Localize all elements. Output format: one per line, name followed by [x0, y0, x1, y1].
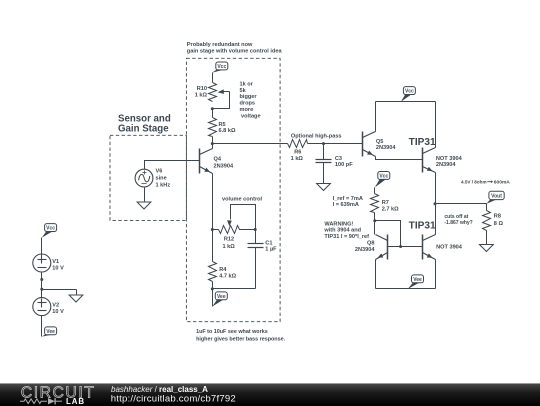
power net label Vee (bottom rail)	[408, 281, 420, 289]
svg-text:8 Ω: 8 Ω	[494, 221, 504, 227]
junction dot R10 bottom	[211, 107, 214, 110]
svg-text:Vcc: Vcc	[217, 64, 226, 70]
svg-text:1 kΩ: 1 kΩ	[291, 156, 304, 162]
node junction to ground	[40, 288, 43, 291]
svg-text:100 pF: 100 pF	[335, 162, 353, 168]
output junction dot	[434, 202, 437, 205]
wire Q4 emitter down	[212, 174, 214, 230]
node dot	[40, 278, 43, 281]
svg-text:1 kΩ: 1 kΩ	[222, 244, 235, 250]
svg-text:6.8 kΩ: 6.8 kΩ	[219, 128, 236, 134]
svg-text:Q8: Q8	[367, 241, 374, 247]
wire Vcc to R7	[374, 188, 376, 194]
svg-text:1k or: 1k or	[240, 81, 254, 87]
svg-text:-1.867 why?: -1.867 why?	[444, 220, 472, 226]
bottom rail	[376, 288, 436, 290]
svg-text:Gain Stage: Gain Stage	[118, 123, 169, 134]
svg-text:Vout: Vout	[491, 194, 502, 200]
transistor Q8 2N3904 (mirrored)	[387, 235, 389, 260]
svg-text:C1: C1	[265, 240, 272, 246]
power net label Vcc (R10)	[212, 68, 224, 73]
svg-text:Vee: Vee	[46, 329, 55, 335]
svg-text:1 µF: 1 µF	[265, 247, 277, 253]
svg-text:bigger: bigger	[240, 94, 258, 100]
svg-text:Vee: Vee	[413, 277, 422, 283]
svg-text:2N3904: 2N3904	[436, 162, 456, 168]
junction dot base rail	[399, 245, 402, 248]
annotation box: gain stage with volume control	[186, 58, 280, 321]
junction dot mirror ref	[373, 219, 376, 222]
svg-text:gain stage with volume control: gain stage with volume control idea	[187, 48, 283, 54]
transistor TIP31 (lower)	[422, 235, 424, 260]
svg-text:Q4: Q4	[214, 157, 222, 163]
resistor R4	[209, 262, 217, 282]
power net label Vee (R4)	[212, 298, 223, 307]
wire TIP31 emitter down	[435, 260, 437, 289]
svg-text:voltage: voltage	[241, 113, 261, 119]
svg-text:I = 639mA: I = 639mA	[333, 202, 359, 208]
svg-text:2.7 kΩ: 2.7 kΩ	[382, 206, 399, 212]
svg-text:R4: R4	[219, 267, 227, 273]
diode-connect loop	[375, 221, 401, 247]
svg-text:R6: R6	[294, 149, 301, 155]
resistor R6	[288, 140, 308, 148]
svg-text:TIP31 I = 90*I_ref: TIP31 I = 90*I_ref	[324, 234, 369, 240]
wire V6 top to Q4 base	[145, 161, 200, 170]
wire R10 to R5	[212, 109, 214, 118]
junction node Q4 collector	[211, 142, 214, 145]
svg-text:1 kHz: 1 kHz	[156, 182, 171, 188]
source V6 sine	[135, 169, 153, 187]
svg-text:2N3904: 2N3904	[214, 164, 234, 170]
svg-text:NOT 3904: NOT 3904	[436, 244, 463, 250]
svg-text:C3: C3	[335, 156, 342, 162]
wire R6 to Q5 base	[308, 143, 363, 145]
wire V1 to node	[41, 273, 43, 298]
ground under V6	[144, 188, 146, 203]
svg-text:TIP31: TIP31	[409, 137, 436, 148]
capacitor C3	[323, 144, 325, 160]
svg-text:sine: sine	[156, 175, 167, 181]
wire R5 to collector node	[212, 137, 214, 149]
svg-text:1uF to 10uF see what works: 1uF to 10uF see what works	[196, 329, 268, 335]
svg-text:Optional high-pass: Optional high-pass	[291, 133, 342, 139]
svg-text:Vcc: Vcc	[46, 226, 55, 232]
svg-text:4.5V / 8ohm: 4.5V / 8ohm	[461, 179, 487, 184]
power net label Vcc (left rail)	[42, 230, 53, 238]
wire R7 to mirror node	[374, 213, 376, 235]
annotation box: Sensor and Gain Stage	[110, 135, 186, 220]
transistor TIP31 (upper)	[422, 148, 424, 173]
wire Q5 emitter to TIP31 base	[376, 157, 423, 160]
svg-text:Vee: Vee	[217, 294, 226, 300]
svg-text:drops: drops	[240, 101, 256, 107]
capacitor C1	[255, 230, 257, 244]
wire to ground	[42, 289, 77, 291]
voltage source V2	[33, 298, 51, 316]
svg-text:V1: V1	[52, 259, 59, 265]
wire V2 to Vee	[41, 316, 43, 337]
svg-text:TIP31: TIP31	[409, 220, 436, 231]
svg-text:5k: 5k	[240, 88, 247, 94]
svg-text:10 V: 10 V	[52, 309, 64, 315]
wire rail down to TIP31 collector	[435, 102, 437, 148]
svg-text:http://circuitlab.com/cb7f792: http://circuitlab.com/cb7f792	[111, 394, 236, 405]
wire TIP31 lower collector up	[435, 204, 437, 235]
resistor R5	[209, 118, 217, 137]
potentiometer R12	[219, 226, 256, 234]
svg-text:higher gives better bass respo: higher gives better bass response.	[196, 337, 285, 343]
svg-text:600mA: 600mA	[494, 179, 511, 185]
wire TIP31 emitter to output node	[435, 173, 437, 204]
svg-text:V6: V6	[156, 168, 163, 174]
voltage source V1	[33, 254, 51, 272]
ground under R8	[486, 231, 488, 245]
svg-text:R12: R12	[224, 236, 234, 242]
svg-text:R10: R10	[197, 86, 207, 92]
wiper loop of R10	[213, 92, 230, 109]
svg-text:R7: R7	[382, 200, 389, 206]
svg-text:WARNING!: WARNING!	[324, 221, 353, 227]
top rail wire	[376, 101, 436, 103]
wire Vcc to V1	[41, 238, 43, 255]
junction dots R12	[211, 228, 214, 231]
wire node to R4	[212, 230, 214, 262]
svg-text:R5: R5	[219, 122, 226, 128]
svg-text:Probably redundant now: Probably redundant now	[187, 42, 253, 48]
junction dot C3 tap	[322, 142, 325, 145]
potentiometer R10	[209, 83, 217, 102]
svg-text:volume control: volume control	[222, 197, 263, 203]
svg-text:V2: V2	[52, 303, 59, 309]
footer bar	[0, 383, 540, 406]
transistor Q5 2N3904	[362, 132, 364, 157]
net label Vout	[486, 198, 497, 204]
svg-text:1 kΩ: 1 kΩ	[195, 93, 208, 99]
base wire Q8 to TIP31	[388, 246, 423, 248]
ground under C3	[323, 163, 325, 184]
svg-text:with 3904 and: with 3904 and	[323, 228, 361, 234]
wire across to C1 bottom	[213, 288, 256, 290]
power net label Vcc (top rail)	[401, 93, 412, 102]
ground (supply midpoint)	[76, 290, 78, 296]
svg-text:2N3904: 2N3904	[376, 145, 396, 151]
wire Vcc to R10	[212, 73, 214, 83]
wire output to R8	[436, 203, 487, 205]
power net label Vee (left rail)	[42, 333, 53, 337]
wire Q5 collector to top rail	[375, 102, 377, 132]
svg-text:Vcc: Vcc	[405, 89, 414, 95]
wire Q8 emitter down	[375, 260, 377, 289]
svg-text:Vcc: Vcc	[379, 173, 388, 179]
junction dot	[211, 287, 214, 290]
wire Q4 collector to R6	[213, 143, 288, 145]
resistor R8	[486, 204, 488, 211]
svg-text:bashhacker / real_class_A: bashhacker / real_class_A	[111, 385, 208, 394]
power net label Vcc (R7)	[375, 178, 386, 188]
svg-text:R8: R8	[494, 214, 501, 220]
resistor R7	[371, 194, 379, 213]
svg-text:2N3904: 2N3904	[355, 247, 375, 253]
svg-text:more: more	[240, 107, 254, 113]
svg-text:10 V: 10 V	[52, 266, 64, 272]
svg-text:4.7 kΩ: 4.7 kΩ	[219, 274, 236, 280]
transistor Q4 2N3904	[199, 149, 201, 174]
wire R4 to Vee node	[212, 282, 214, 307]
wiper loop of R12	[231, 205, 256, 230]
